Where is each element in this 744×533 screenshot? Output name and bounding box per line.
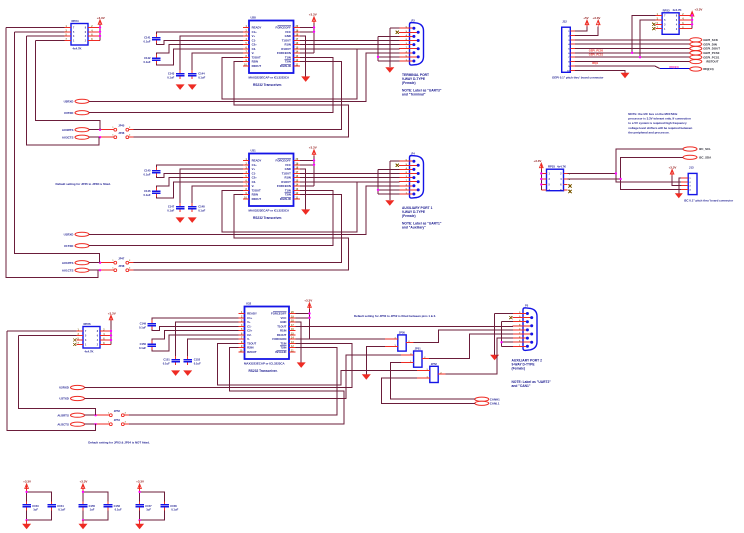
junction AU1RTS at jumper [99,262,101,264]
wire V+ to C147 [180,169,243,203]
svg-text:C143: C143 [168,72,175,76]
note J13 description [684,199,734,203]
wire T1OUT to P3 pin8 [300,39,399,41]
svg-text:+3.3V: +3.3V [97,16,105,20]
node GEPI_DIN off-page connector [690,42,717,46]
power +3.3V at transceiver [300,146,317,187]
junction GEPI_PCS1 pullup [639,56,641,58]
svg-text:AU2CTS: AU2CTS [57,422,69,426]
svg-text:0.1uF: 0.1uF [143,172,150,176]
svg-text:C155: C155 [89,504,96,508]
wire U1TXD to T1IN [89,190,333,245]
wire C145 to C1+ C1- [156,165,243,178]
ground at C148 [188,217,197,223]
wire FORCEON row to JP50 pin3 [296,338,386,340]
svg-text:C150: C150 [140,342,147,346]
wire V+ to C143 [180,36,243,70]
svg-text:+3.3V: +3.3V [304,299,312,303]
svg-text:AU2RTS: AU2RTS [57,413,69,417]
svg-text:+3.3V: +3.3V [695,8,703,12]
svg-text:0.1uF: 0.1uF [163,361,170,365]
svg-text:JP47: JP47 [118,256,125,260]
power +3.3V at RP25 [534,159,544,190]
svg-text:AU3CTS: AU3CTS [62,135,74,139]
power +3.3V at RP23 [690,8,702,29]
capacitor C157 1uF [135,501,152,511]
ground at C157 [135,520,144,529]
wire C142 to C2+ C2- [156,45,243,65]
note P3 label [402,89,442,97]
wire RTS pullup from RP24 pin3 [36,40,100,129]
wire J12 pin6 to GEPI_PCS0 [575,52,690,54]
svg-text:CANL1: CANL1 [490,402,500,406]
ground at C147 [176,217,185,223]
svg-text:JP48: JP48 [118,264,125,268]
power +3.3V at RP24 [97,16,105,40]
svg-text:GEPI 0.1" pitch thru' board co: GEPI 0.1" pitch thru' board connector [552,76,604,80]
wire P5 pin5 to ground [495,314,513,355]
svg-text:the peripheral and processor.: the peripheral and processor. [628,131,669,135]
junction VCC FORCEOFF rail [308,312,310,319]
svg-text:voltage level shifters will be: voltage level shifters will be required … [628,126,692,130]
connector P5 DB9 [512,304,537,351]
svg-text:+3.3V: +3.3V [136,480,144,484]
connector P3 DB9 [399,18,424,65]
ground at transceiver GND pin [301,209,310,215]
wire AU2RTS to jumper JP53 [85,414,110,416]
svg-text:R2OUT: R2OUT [252,64,262,68]
svg-text:RP26: RP26 [84,322,91,326]
wire P4 pin5 to ground [390,161,400,200]
wire JP51 pin1 to CANH1 [391,363,475,400]
wire U3RXD to P3 pin2 [89,53,399,102]
svg-text:0.1uF: 0.1uF [167,75,174,79]
junction GEPI_PCS0 pullup [631,52,633,54]
wire U2RXD to T1IN [85,343,353,387]
svg-text:0.1uF: 0.1uF [171,508,178,512]
capacitor C156 0.1uF [104,501,122,511]
wire J12 pin4 to GEPI_DIN [575,43,690,45]
jumper JP53 [108,409,127,417]
ground at C155 [79,520,88,529]
junction C155 bottom [82,519,84,521]
wire JP47 to T2IN [129,195,342,263]
svg-text:INVALID: INVALID [280,64,291,68]
svg-text:JP51: JP51 [415,347,422,351]
junction I2C_SCL pullup [615,172,617,174]
svg-text:4x4.7K: 4x4.7K [673,8,682,12]
wire U3TXD to T1IN [89,57,333,112]
svg-text:0.1uF: 0.1uF [198,208,205,212]
svg-text:Default setting for JP50 to JP: Default setting for JP50 to JP52 is fitt… [354,314,436,318]
wire J12 pin7 to GEPI_PCS1 [575,56,690,58]
svg-text:C151: C151 [163,358,170,362]
svg-text:0.1uF: 0.1uF [139,346,146,350]
wire AU2CTS to jumper JP54 [85,423,110,425]
svg-text:0.1uF: 0.1uF [143,60,150,64]
power +5V at J12 [575,16,589,31]
svg-text:INVALID: INVALID [275,350,286,354]
capacitor C143 0.1uF [167,70,184,79]
capacitor C146 0.1uF [143,188,160,197]
node AU3RTS off-page connector [62,128,89,132]
junction C153 bottom [25,519,27,521]
wire JP52 pin1 to CANL1 [381,378,474,403]
jumper JP51 [401,347,429,368]
wire AU2RTS pullup from RP26 [18,336,95,416]
note J12 description [552,76,604,80]
svg-text:U2TXD: U2TXD [59,397,68,401]
svg-text:U31: U31 [251,148,257,152]
svg-text:0.1uF: 0.1uF [115,508,122,512]
capacitor C149 0.1uF [139,320,156,329]
junction AU2RTS at jumper [94,414,96,416]
wire C141 to C1+ C1- [156,32,243,45]
svg-text:U3RXD: U3RXD [64,99,74,103]
svg-text:JP50: JP50 [399,331,406,335]
ground at JP50 [362,374,371,380]
svg-text:1uF: 1uF [146,508,151,512]
ground at J13 [675,193,683,198]
wire P3 DTR-DSR-DCD tie [378,36,399,61]
svg-text:C144: C144 [198,72,205,76]
capacitor C158 0.1uF [160,501,178,511]
junction AU1CTS at jumper [99,269,101,271]
svg-text:JP52: JP52 [431,362,438,366]
wire CTS pullup from RP24 pin4 [27,36,99,145]
wire R1IN to P4 pin3 [300,177,399,179]
svg-text:C156: C156 [114,504,121,508]
svg-text:NOTE: the I2C bus on the MCF52: NOTE: the I2C bus on the MCF523x [628,112,677,116]
svg-text:RP25: RP25 [548,165,555,169]
svg-text:+3.3V: +3.3V [23,480,31,484]
wire T2OUT loop to JP52 pin3 [218,343,418,385]
jumper JP47 [112,256,131,264]
wire C149 to C1+ C1- [152,318,239,331]
svg-text:U1TXD: U1TXD [64,244,73,248]
junction P5 pin6 [500,341,502,343]
node GEPI_PCS0 off-page connector [690,51,720,55]
ground at P4 [385,200,394,206]
node AU2CTS off-page connector [57,422,84,426]
wire C150 to C2+ C2- [152,331,239,351]
svg-text:4x4.7K: 4x4.7K [557,165,566,169]
node GEPI_PCS1 off-page connector [690,55,720,59]
wire JP50 pin2 to P5 pin3 [413,330,512,343]
node CANH1 off-page connector [475,397,500,401]
connector J12 GEPI header [562,20,575,73]
svg-text:C158: C158 [170,504,177,508]
wire V- to C148 [192,186,243,203]
svg-text:INVALID: INVALID [280,197,291,201]
svg-text:AU3RTS: AU3RTS [62,128,74,132]
wire AU1CTS to jumper JP48 [89,269,114,271]
connector P4 DB9 [399,151,424,198]
svg-text:to a 5V system is required hig: to a 5V system is required high frequenc… [628,121,687,125]
note I2C level shifting [628,112,692,135]
svg-text:JP45: JP45 [118,123,125,127]
power +3.3V at C155 [80,480,88,492]
svg-text:processor is 3.3V tolerant onl: processor is 3.3V tolerant only. If conn… [628,117,691,121]
wire AU3CTS to jumper JP46 [89,136,114,138]
svg-text:+3.3V: +3.3V [80,480,88,484]
junction P4 pin6 [377,189,379,191]
power +3.3V at C153 [23,480,31,492]
svg-text:R2OUT: R2OUT [252,197,262,201]
ground at C151 [171,370,180,376]
note default setting JP53-JP54 [88,440,150,444]
svg-text:and "Terminal": and "Terminal" [402,93,426,97]
junction I2C_SDA pullup [619,178,621,180]
power +3.3V at J12 [575,16,601,36]
wire V- to C152 [188,339,239,356]
note P5 label [512,380,552,388]
svg-text:MAX3223ECAP or ICL3223CA: MAX3223ECAP or ICL3223CA [249,209,291,213]
svg-text:P5: P5 [525,304,529,308]
node AU1RTS off-page connector [62,261,89,265]
wire V- to C144 [192,53,243,70]
svg-text:JP46: JP46 [118,131,125,135]
wire AU2CTS pullup from RP26 [7,331,96,431]
wire AU3RTS to jumper JP45 [89,129,114,131]
svg-text:AU1CTS: AU1CTS [62,268,74,272]
svg-text:Default setting for JP45 to JP: Default setting for JP45 to JP48 is fitt… [56,182,111,186]
IC U28 RS232 transceiver MAX3223ECAP [243,15,300,87]
wire V+ to C151 [176,322,239,356]
wire J12 pin5 to GEPI_DOUT [575,48,690,50]
svg-text:+3.3V: +3.3V [593,16,601,20]
svg-text:I2C_SDA: I2C_SDA [699,155,712,159]
note P4 label [402,222,442,230]
svg-text:I2C_SCL: I2C_SCL [699,147,711,151]
svg-text:U2RXD: U2RXD [59,386,69,390]
node CANL1 off-page connector [475,401,500,405]
ground at P5 [490,355,499,361]
svg-text:C141: C141 [144,36,151,40]
svg-text:(Female): (Female) [402,81,416,85]
svg-text:+3.3V: +3.3V [669,165,677,169]
junction AU3CTS at jumper [99,136,101,138]
wire RP26 pin2 to left bus [18,335,76,337]
svg-text:P4: P4 [412,151,416,155]
net label IRQ1 [592,61,599,65]
svg-text:/RSTOUT: /RSTOUT [706,60,719,64]
svg-text:0.1uF: 0.1uF [143,193,150,197]
wire J12 pin8 to /RSTOUT [575,61,690,63]
no-connect pin 9 of P4 [396,164,399,167]
capacitor C151 0.1uF [163,356,180,365]
jumper JP50 [385,331,413,352]
wire P4 DTR-DSR-DCD tie [378,169,399,194]
wire T2OUT loop to DB9 pin2 column [222,182,357,232]
svg-text:U3TXD: U3TXD [64,111,73,115]
junction VCC FORCEOFF rail [313,26,315,33]
svg-text:C157: C157 [145,504,152,508]
svg-text:IRQ(24): IRQ(24) [669,65,678,69]
svg-text:C147: C147 [168,205,175,209]
wire U1RXD to P4 pin2 [89,186,399,235]
junction dots RP23 pullup rail [691,14,693,25]
jumper JP46 [112,131,131,139]
node U2TXD off-page connector [59,396,84,400]
svg-text:J13: J13 [689,166,694,170]
wire I2C_SDA net [568,157,683,189]
note default setting JP50-JP52 [354,314,436,318]
wire RP26 pin1 to left bus [7,330,77,332]
ground at C144 [188,84,197,90]
svg-text:AU1RTS: AU1RTS [62,261,74,265]
wire RP24 pin3 to left bus [27,35,65,37]
node AU1CTS off-page connector [62,268,89,272]
note P5 port description [512,359,543,371]
wire JP54 to R2IN [124,348,344,425]
wire R1IN to P3 pin3 [300,44,399,46]
wire T2OUT loop to DB9 pin2 column [222,49,357,99]
node U2RXD off-page connector [59,385,84,389]
jumper JP52 [417,362,445,383]
capacitor C150 0.1uF [139,341,156,350]
svg-text:RS232 Transceiver.: RS232 Transceiver. [253,216,282,220]
net label IRQ(24) [669,65,678,69]
wire JP46 to R2IN [129,62,349,138]
node GEPI_DOUT off-page connector [690,46,720,50]
junction dots RP24 pullup rail [99,26,101,37]
junction AU3RTS at jumper [99,129,101,131]
svg-text:(Female): (Female) [512,367,526,371]
svg-text:C146: C146 [144,189,151,193]
node U3TXD off-page connector [64,111,89,115]
wire RP23 pin1 to GEPI_PCS0 [632,15,656,52]
svg-text:Default setting for JP53 & JP5: Default setting for JP53 & JP54 is NOT f… [88,440,150,444]
svg-text:J12: J12 [562,20,567,24]
jumper JP54 [108,418,127,426]
junction VCC FORCEOFF rail [313,159,315,166]
svg-text:C142: C142 [144,56,151,60]
svg-text:I2C 0.1" pitch thru' board con: I2C 0.1" pitch thru' board connector [684,199,734,203]
svg-text:+3.3V: +3.3V [309,146,317,150]
node IRQ(14) off-page connector [690,67,714,71]
wire T1OUT to P4 pin8 [300,172,399,174]
svg-text:JP53: JP53 [114,409,121,413]
power +3.3V at transceiver [300,13,317,54]
junction P3 pin6 [377,56,379,58]
wire decoupling loop C157 C158 [140,492,165,520]
wire I2C_SCL net [568,149,683,182]
svg-text:GEPI_PCS0: GEPI_PCS0 [589,48,604,52]
wire RP23 pin2 to GEPI_PCS1 [640,20,656,57]
power +3.3V at J13 [669,165,682,185]
svg-text:R2OUT: R2OUT [247,350,257,354]
node I2C_SDA off-page connector [683,155,712,159]
capacitor C147 0.1uF [167,203,184,212]
wire JP45 to T2IN [129,62,342,130]
power +3.3V at C157 [136,480,144,492]
wire AU1RTS to jumper JP47 [89,262,114,264]
svg-text:0.1uF: 0.1uF [198,75,205,79]
wire J13 pin1 to ground [679,178,681,194]
resistor pack RP24 4x4.7K [65,19,101,50]
junction C153 top [25,491,27,493]
svg-text:IRQ(14): IRQ(14) [703,67,713,71]
svg-text:C154: C154 [57,504,64,508]
svg-text:IRQ1: IRQ1 [592,61,599,65]
junction AU2CTS at jumper [94,423,96,425]
IC U31 RS232 transceiver MAX3223ECAP [243,148,300,220]
ground at C143 [176,84,185,90]
svg-text:1uF: 1uF [33,508,38,512]
junction C157 bottom [138,519,140,521]
svg-text:RP23: RP23 [663,8,670,12]
net label GEPI_PCS1 [589,52,604,56]
svg-text:C153: C153 [32,504,39,508]
capacitor C152 0.1uF [183,356,201,365]
svg-text:0.1uF: 0.1uF [167,208,174,212]
note default setting JP45-JP48 [56,182,111,186]
no-connect pin 9 of P3 [396,31,399,34]
wire JP50 pin1 to ground [366,347,385,375]
capacitor C142 0.1uF [143,55,160,64]
wire decoupling loop C153 C154 [27,492,52,520]
svg-text:RP24: RP24 [72,19,79,23]
capacitor C155 1uF [79,501,96,511]
junction dots RP26 pullup rail [110,330,112,341]
node GEPI_SCK off-page connector [690,38,719,42]
svg-text:0.1uF: 0.1uF [58,508,65,512]
svg-text:C145: C145 [144,169,151,173]
svg-text:U32: U32 [246,301,252,305]
svg-text:0.1uF: 0.1uF [143,39,150,43]
wire R1OUT to P3 pin7 [300,48,399,50]
node U1RXD off-page connector [64,232,89,236]
svg-text:+3.3V: +3.3V [108,311,116,315]
wire U2TXD to JP51 pin3 [85,355,402,398]
power +3.3V at transceiver [296,299,313,340]
IC U32 RS232 transceiver MAX3223ECAP [239,301,296,373]
wire RP24 pin4 to left bus [36,39,65,41]
wire GND pin to ground [296,322,302,362]
jumper JP45 [112,123,131,131]
wire RP24 pin1 to left bus [6,27,65,29]
wire GND pin to ground [300,169,306,209]
wire AU1CTS pullup from RP24 pin1 [6,28,98,278]
connector J13 I2C header [681,166,697,195]
ground at transceiver GND pin [301,76,310,82]
svg-text:+5V: +5V [583,16,588,20]
svg-text:P3: P3 [412,18,416,22]
wire J12 pin10 to ground [575,70,625,73]
capacitor C145 0.1uF [143,167,160,176]
node I2C_SCL off-page connector [683,147,711,151]
ground at J12 [621,73,630,79]
ground at C152 [183,370,192,376]
wire JP52 pin2 to P5 pin2 [445,338,512,374]
wire C146 to C2+ C2- [156,178,243,198]
wire J12 pin3 to GEPI_SCK [575,39,690,41]
wire P5 DTR-DSR-DCD tie [502,322,513,347]
node AU3CTS off-page connector [62,135,89,139]
wire R1OUT to P4 pin7 [300,181,399,183]
capacitor C153 1uF [22,501,39,511]
no-connect pin 9 of P5 [509,316,512,319]
svg-text:C152: C152 [194,358,201,362]
wire AU1RTS pullup from RP24 pin2 [15,32,100,263]
node U1TXD off-page connector [64,244,89,248]
value RP23 4x4.7K [673,8,682,12]
capacitor C141 0.1uF [143,34,160,43]
jumper JP48 [112,264,131,272]
ground at P3 [385,67,394,73]
wire JP51 pin2 to P5 pin7 [429,334,513,359]
